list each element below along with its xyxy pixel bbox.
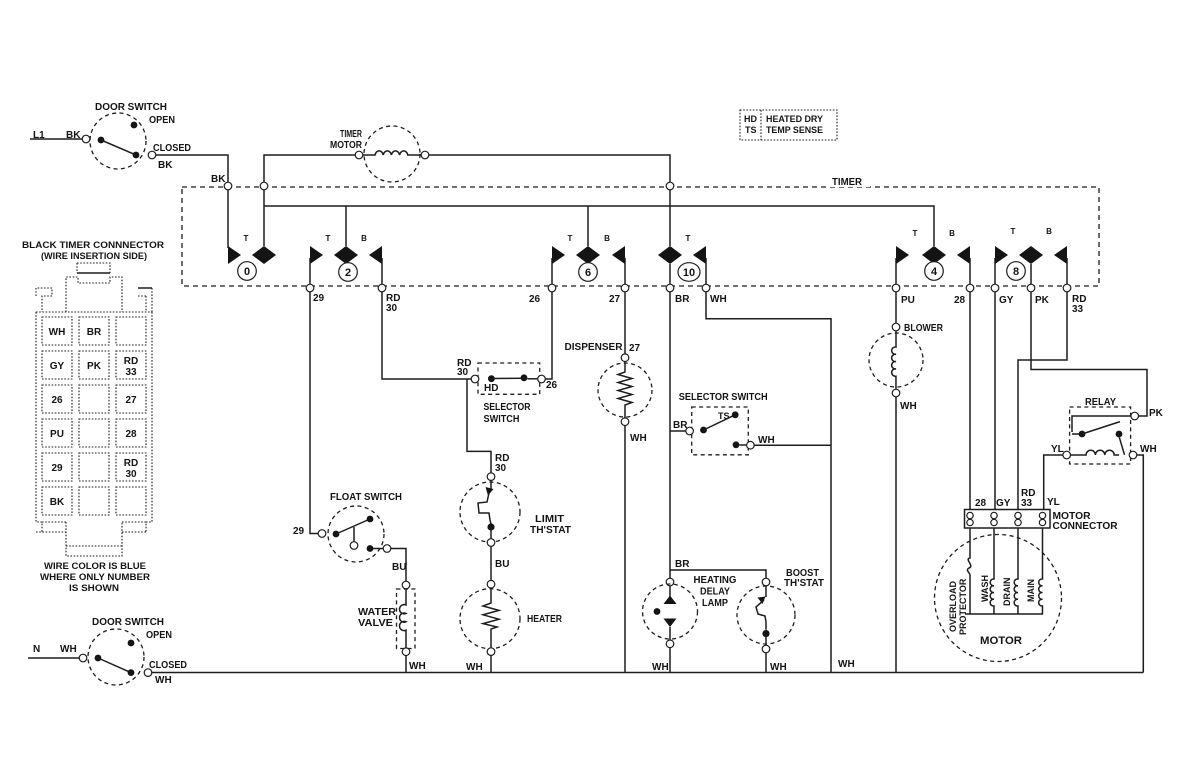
svg-text:WH: WH — [900, 401, 917, 412]
svg-text:HEATING: HEATING — [694, 575, 737, 586]
svg-text:T: T — [913, 229, 918, 238]
svg-text:DOOR SWITCH: DOOR SWITCH — [95, 102, 167, 113]
svg-text:PROTECTOR: PROTECTOR — [958, 578, 968, 635]
svg-text:WH: WH — [838, 659, 855, 670]
svg-text:WH: WH — [60, 644, 77, 655]
svg-text:BK: BK — [50, 497, 65, 508]
svg-text:YL: YL — [1051, 444, 1064, 455]
svg-text:OVERLOAD: OVERLOAD — [948, 580, 958, 632]
svg-text:26: 26 — [51, 395, 63, 406]
svg-text:30: 30 — [125, 469, 137, 480]
svg-text:YL: YL — [1047, 497, 1060, 508]
svg-text:PK: PK — [1149, 408, 1164, 419]
svg-text:2: 2 — [345, 267, 351, 279]
svg-text:LAMP: LAMP — [702, 598, 728, 609]
svg-text:6: 6 — [585, 267, 591, 279]
svg-text:RD: RD — [124, 458, 138, 469]
svg-text:28: 28 — [125, 429, 137, 440]
svg-text:IS SHOWN: IS SHOWN — [69, 583, 119, 593]
svg-text:MOTOR: MOTOR — [330, 140, 363, 151]
svg-text:30: 30 — [495, 463, 507, 474]
svg-text:26: 26 — [546, 380, 558, 391]
svg-text:PK: PK — [1035, 295, 1050, 306]
svg-text:BK: BK — [158, 160, 173, 171]
svg-text:B: B — [1046, 227, 1052, 236]
svg-text:(WIRE INSERTION SIDE): (WIRE INSERTION SIDE) — [41, 251, 147, 261]
svg-text:T: T — [1011, 227, 1016, 236]
svg-text:T: T — [686, 234, 691, 243]
svg-text:LIMIT: LIMIT — [535, 514, 564, 525]
svg-text:T: T — [326, 234, 331, 243]
svg-text:B: B — [361, 234, 367, 243]
svg-text:28: 28 — [975, 498, 987, 509]
svg-text:BLOWER: BLOWER — [904, 323, 944, 334]
svg-text:WH: WH — [409, 661, 426, 672]
svg-text:33: 33 — [1072, 304, 1084, 315]
svg-text:BK: BK — [211, 174, 226, 185]
svg-text:33: 33 — [125, 367, 137, 378]
svg-text:WH: WH — [770, 662, 787, 673]
svg-text:30: 30 — [386, 303, 398, 314]
svg-text:30: 30 — [457, 367, 469, 378]
svg-text:GY: GY — [999, 295, 1014, 306]
svg-text:TIMER: TIMER — [340, 129, 363, 140]
svg-text:26: 26 — [529, 294, 541, 305]
svg-text:T: T — [244, 234, 249, 243]
svg-text:PK: PK — [87, 361, 102, 372]
svg-text:SELECTOR SWITCH: SELECTOR SWITCH — [679, 392, 768, 403]
svg-text:DISPENSER: DISPENSER — [565, 342, 624, 353]
svg-text:DELAY: DELAY — [700, 587, 730, 598]
svg-text:TEMP SENSE: TEMP SENSE — [766, 125, 823, 135]
svg-text:27: 27 — [125, 395, 137, 406]
svg-text:29: 29 — [293, 526, 305, 537]
svg-text:VALVE: VALVE — [358, 618, 393, 629]
svg-text:RD: RD — [124, 356, 138, 367]
svg-text:BR: BR — [675, 559, 690, 570]
svg-text:B: B — [604, 234, 610, 243]
svg-text:SELECTOR: SELECTOR — [484, 402, 532, 413]
svg-text:HD: HD — [484, 383, 498, 394]
svg-text:GY: GY — [50, 361, 65, 372]
svg-text:BLACK TIMER CONNNECTOR: BLACK TIMER CONNNECTOR — [22, 240, 165, 250]
svg-text:4: 4 — [931, 266, 938, 278]
svg-text:CONNECTOR: CONNECTOR — [1053, 521, 1119, 532]
svg-text:BU: BU — [495, 559, 509, 570]
svg-text:33: 33 — [1021, 498, 1033, 509]
svg-text:TS: TS — [745, 125, 757, 135]
svg-text:0: 0 — [244, 266, 250, 278]
svg-text:8: 8 — [1013, 266, 1019, 278]
svg-text:WH: WH — [630, 433, 647, 444]
svg-text:WH: WH — [155, 675, 172, 686]
svg-text:HEATED DRY: HEATED DRY — [766, 114, 823, 124]
svg-text:BU: BU — [392, 562, 406, 573]
svg-text:BR: BR — [675, 294, 690, 305]
svg-text:WH: WH — [710, 294, 727, 305]
svg-text:27: 27 — [609, 294, 621, 305]
svg-text:CLOSED: CLOSED — [149, 660, 187, 671]
svg-text:HEATER: HEATER — [527, 614, 563, 625]
svg-text:WH: WH — [466, 662, 483, 673]
svg-text:TIMER: TIMER — [832, 177, 863, 188]
svg-text:HD: HD — [744, 114, 757, 124]
svg-text:WH: WH — [652, 662, 669, 673]
svg-text:WASH: WASH — [980, 575, 990, 602]
svg-text:WH: WH — [758, 435, 775, 446]
svg-text:GY: GY — [996, 498, 1011, 509]
svg-text:TH'STAT: TH'STAT — [784, 578, 824, 589]
svg-text:WHERE ONLY NUMBER: WHERE ONLY NUMBER — [40, 572, 151, 582]
svg-text:SWITCH: SWITCH — [484, 414, 520, 425]
svg-text:10: 10 — [683, 267, 695, 279]
svg-text:28: 28 — [954, 295, 966, 306]
svg-text:CLOSED: CLOSED — [153, 143, 191, 154]
svg-text:OPEN: OPEN — [149, 115, 175, 126]
svg-text:WATER: WATER — [358, 607, 397, 618]
svg-text:B: B — [949, 229, 955, 238]
svg-text:MAIN: MAIN — [1026, 579, 1036, 602]
svg-text:OPEN: OPEN — [146, 630, 172, 641]
svg-text:WIRE COLOR IS BLUE: WIRE COLOR IS BLUE — [44, 561, 146, 571]
svg-text:TH'STAT: TH'STAT — [530, 525, 571, 536]
svg-text:WH: WH — [1140, 444, 1157, 455]
svg-text:DRAIN: DRAIN — [1002, 578, 1012, 607]
svg-text:27: 27 — [629, 343, 641, 354]
svg-text:PU: PU — [901, 295, 915, 306]
svg-text:WH: WH — [49, 327, 66, 338]
svg-text:MOTOR: MOTOR — [980, 635, 1022, 647]
svg-text:BR: BR — [87, 327, 102, 338]
svg-text:29: 29 — [51, 463, 63, 474]
svg-text:29: 29 — [313, 293, 325, 304]
svg-text:DOOR SWITCH: DOOR SWITCH — [92, 617, 164, 628]
svg-text:N: N — [33, 644, 40, 655]
svg-text:T: T — [568, 234, 573, 243]
svg-text:FLOAT SWITCH: FLOAT SWITCH — [330, 492, 402, 503]
svg-text:PU: PU — [50, 429, 64, 440]
